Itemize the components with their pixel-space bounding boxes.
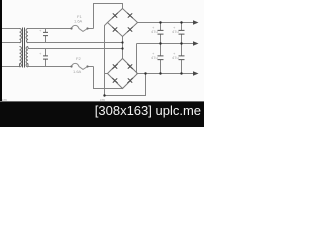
svg-text:47u: 47u <box>172 29 179 34</box>
svg-text:47u: 47u <box>151 29 158 34</box>
svg-text:+: + <box>39 51 42 56</box>
svg-text:1.6A: 1.6A <box>74 19 83 24</box>
svg-text:1.6A: 1.6A <box>73 69 82 74</box>
svg-text:47u: 47u <box>172 55 179 60</box>
svg-text:F2: F2 <box>76 56 81 61</box>
svg-text:47u: 47u <box>151 55 158 60</box>
